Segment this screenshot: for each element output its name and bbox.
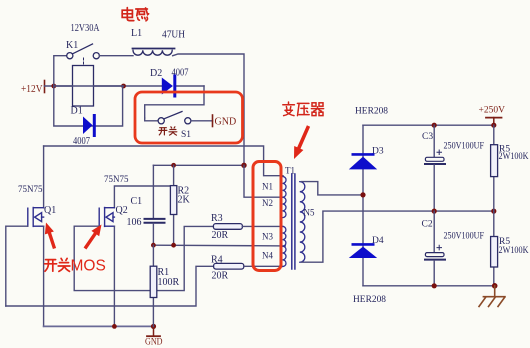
svg-text:R3: R3 xyxy=(211,213,223,224)
resistor R5 (top) xyxy=(491,125,529,211)
svg-text:47UH: 47UH xyxy=(162,30,185,41)
transistor Q2 xyxy=(99,205,128,226)
transformer T1 secondary winding N5 xyxy=(300,182,305,263)
winding labels N1-N4 xyxy=(262,182,273,261)
svg-text:HER208: HER208 xyxy=(353,295,386,305)
node junction dot R5 mid xyxy=(491,209,496,214)
wire Q1 gate xyxy=(6,226,28,306)
svg-text:20R: 20R xyxy=(212,271,229,282)
annotation red arrow to Q2 xyxy=(84,225,102,250)
annotation text 开关MOS xyxy=(45,258,106,275)
svg-text:C2: C2 xyxy=(422,220,433,230)
wire rail y=165.3 xyxy=(153,164,244,166)
node junction dot +250V xyxy=(491,123,496,128)
svg-text:250V100UF: 250V100UF xyxy=(444,142,485,152)
wire bottom rail xyxy=(363,285,495,287)
node junction dot C2 bottom xyxy=(432,283,437,288)
svg-text:20R: 20R xyxy=(212,230,229,241)
svg-text:75N75: 75N75 xyxy=(18,184,43,194)
wire Q2 source down xyxy=(113,226,115,326)
svg-text:GND: GND xyxy=(215,117,237,128)
svg-text:75N75: 75N75 xyxy=(104,174,129,184)
node junction dot earth xyxy=(492,283,498,289)
wire top rail +250V xyxy=(363,124,494,126)
annotation text 电感 xyxy=(122,8,148,21)
transistor Q1 xyxy=(28,205,56,226)
wire N5 top lead to D3 node xyxy=(302,182,364,195)
node junction D3/D4/N5 xyxy=(360,192,365,197)
transformer T1 primary winding xyxy=(283,177,286,267)
wire ground run y=326 xyxy=(44,325,154,327)
node junction dot L1/tap xyxy=(241,163,246,168)
svg-text:2W100K: 2W100K xyxy=(499,246,529,256)
ground earth symbol xyxy=(479,286,505,307)
node junction dot C3 top xyxy=(432,123,437,128)
node junction Q2 source / gnd xyxy=(112,324,117,329)
svg-text:T1: T1 xyxy=(285,166,295,176)
wire Q2 drain to R2 top xyxy=(114,186,173,208)
ground GND symbol xyxy=(145,326,163,347)
svg-text:L1: L1 xyxy=(131,28,142,39)
wire rail y=146 Q1 drain to transformer N1 top xyxy=(44,146,283,176)
svg-text:2K: 2K xyxy=(178,195,191,206)
svg-text:C3: C3 xyxy=(422,132,433,142)
svg-text:Q1: Q1 xyxy=(44,205,56,216)
wire D1 loop xyxy=(54,86,123,126)
diode D3 xyxy=(349,147,384,170)
switch S1 xyxy=(145,112,213,127)
node junction dot R2 bottom xyxy=(171,243,176,248)
node junction dot C1/R1 xyxy=(151,243,156,248)
svg-text:250V100UF: 250V100UF xyxy=(444,232,485,242)
capacitor C3 xyxy=(422,125,484,211)
node +250V terminal xyxy=(479,106,506,126)
wire Q1 source down xyxy=(43,226,45,326)
diode D4 xyxy=(349,236,384,258)
wire Q2 gate to R3 left xyxy=(74,226,213,290)
svg-text:GND: GND xyxy=(145,338,163,348)
svg-text:N4: N4 xyxy=(262,251,273,261)
svg-text:S1: S1 xyxy=(181,130,191,140)
svg-text:N1: N1 xyxy=(262,182,273,192)
annotation red arrow to transformer xyxy=(294,125,310,159)
svg-text:HER208: HER208 xyxy=(355,107,388,117)
node junction dot before D2 xyxy=(121,84,126,89)
wire through coil xyxy=(54,85,124,87)
wire N5 bottom lead to mid rail xyxy=(302,211,494,262)
svg-text:106: 106 xyxy=(127,217,142,228)
svg-text:N3: N3 xyxy=(262,232,273,242)
diode D2 xyxy=(150,68,189,97)
transformer core xyxy=(292,174,295,269)
node junction dot at +12V xyxy=(51,84,56,89)
wire K1 to L1 xyxy=(99,55,133,57)
wire D2 cathode to corner xyxy=(176,85,204,87)
svg-text:K1: K1 xyxy=(66,40,78,51)
wire D2 cathode down to switch S1 xyxy=(145,86,204,118)
resistor R3 xyxy=(211,213,283,241)
node junction dot C2 top xyxy=(432,209,437,214)
node +12V label xyxy=(21,81,45,96)
wire rail y=245.2 to transformer N3/N4 tap xyxy=(153,244,285,247)
node junction dot R2 top xyxy=(171,163,176,168)
svg-text:Q2: Q2 xyxy=(116,205,128,216)
inductor L1 xyxy=(133,49,175,56)
svg-text:N2: N2 xyxy=(262,198,273,208)
wire L1 to vertical x=244 xyxy=(173,54,244,165)
svg-text:MOS: MOS xyxy=(71,258,106,275)
node junction R1 bottom / gnd xyxy=(151,324,156,329)
svg-text:C1: C1 xyxy=(131,196,143,207)
resistor R1 xyxy=(150,245,179,326)
svg-text:12V30A: 12V30A xyxy=(71,23,101,34)
annotation text 变压器 xyxy=(283,102,324,116)
label 开关 (dark red, under S1) xyxy=(159,127,177,135)
annotation red box around transformer primary xyxy=(253,162,281,271)
svg-text:D2: D2 xyxy=(150,68,162,79)
wire K1 left leg xyxy=(54,56,67,86)
svg-text:N5: N5 xyxy=(304,208,315,218)
wire D3/D4 vertical branch xyxy=(362,125,364,286)
wire Q1 gate bottom run y=306 to R4 xyxy=(6,266,214,306)
svg-text:+12V: +12V xyxy=(21,84,43,95)
relay coil K1 rectangle xyxy=(73,66,94,107)
svg-text:D1: D1 xyxy=(71,106,83,117)
capacitor C1 xyxy=(127,165,165,245)
svg-text:100R: 100R xyxy=(158,277,180,288)
wire primary tap from dot to N1/N2 junction xyxy=(244,165,283,197)
wire Q1 drain vertical xyxy=(43,146,45,208)
svg-text:+250V: +250V xyxy=(479,106,506,116)
annotation red arrow to Q1 xyxy=(45,223,56,250)
svg-text:2W100K: 2W100K xyxy=(499,152,529,162)
relay switch K1 xyxy=(66,40,99,66)
annotation red box around switch S1 xyxy=(135,92,243,143)
resistor R2 xyxy=(170,165,190,245)
capacitor C2 xyxy=(422,211,485,286)
resistor R5 (bottom) xyxy=(491,211,529,286)
diode D1 xyxy=(71,106,95,148)
wire +12V horizontal rail y=86 xyxy=(45,85,162,87)
resistor R4 xyxy=(211,255,283,282)
